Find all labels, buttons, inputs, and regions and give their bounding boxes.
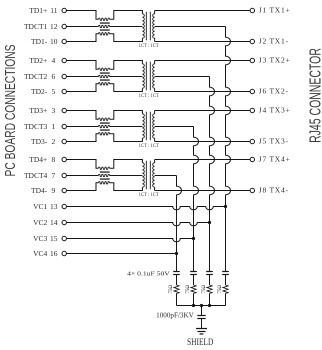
svg-text:1CT : 1CT: 1CT : 1CT <box>139 144 159 149</box>
svg-text:15: 15 <box>50 234 58 243</box>
svg-text:7: 7 <box>51 171 55 180</box>
svg-text:TD4-: TD4- <box>31 186 48 195</box>
svg-text:5: 5 <box>51 87 55 96</box>
svg-text:VC2: VC2 <box>33 218 47 227</box>
svg-text:4: 4 <box>51 56 55 65</box>
svg-text:RJ45 CONNECTOR: RJ45 CONNECTOR <box>306 48 322 143</box>
svg-text:SHIELD: SHIELD <box>187 336 213 347</box>
svg-text:1CT : 1CT: 1CT : 1CT <box>139 94 159 99</box>
svg-text:6: 6 <box>51 72 55 81</box>
svg-text:J6 TX2-: J6 TX2- <box>259 86 289 95</box>
svg-text:J7 TX4+: J7 TX4+ <box>259 154 291 163</box>
svg-text:J3 TX2+: J3 TX2+ <box>259 55 291 64</box>
svg-text:VC1: VC1 <box>33 202 47 211</box>
svg-text:VC4: VC4 <box>33 249 47 258</box>
svg-text:TD3-: TD3- <box>31 137 48 146</box>
svg-text:16: 16 <box>50 249 58 258</box>
svg-text:75Ω: 75Ω <box>168 285 174 294</box>
svg-text:1: 1 <box>51 122 55 131</box>
svg-text:11: 11 <box>50 6 57 15</box>
svg-text:TDCT2: TDCT2 <box>24 72 48 81</box>
svg-text:TD4+: TD4+ <box>29 155 47 164</box>
svg-text:J8 TX4-: J8 TX4- <box>259 185 289 194</box>
svg-text:1CT : 1CT: 1CT : 1CT <box>139 193 159 198</box>
svg-text:TDCT3: TDCT3 <box>24 122 48 131</box>
svg-text:75Ω: 75Ω <box>185 285 191 294</box>
svg-text:12: 12 <box>50 22 58 31</box>
svg-text:TD3+: TD3+ <box>29 106 47 115</box>
svg-text:9: 9 <box>51 186 55 195</box>
svg-text:PC BOARD CONNECTIONS: PC BOARD CONNECTIONS <box>1 45 18 177</box>
svg-text:8: 8 <box>51 155 55 164</box>
svg-text:TDCT1: TDCT1 <box>24 22 48 31</box>
svg-text:J5 TX3-: J5 TX3- <box>259 136 289 145</box>
svg-text:75Ω: 75Ω <box>217 285 223 294</box>
svg-text:TD1-: TD1- <box>31 37 48 46</box>
svg-text:2: 2 <box>51 137 55 146</box>
svg-text:J4 TX3+: J4 TX3+ <box>259 105 291 114</box>
svg-text:1000pF/3KV: 1000pF/3KV <box>156 312 194 319</box>
svg-text:TD1+: TD1+ <box>29 6 47 15</box>
svg-text:VC3: VC3 <box>33 234 47 243</box>
svg-text:TDCT4: TDCT4 <box>24 171 48 180</box>
svg-text:J1 TX1+: J1 TX1+ <box>259 5 291 14</box>
svg-text:TD2+: TD2+ <box>29 56 47 65</box>
svg-text:TD2-: TD2- <box>31 87 48 96</box>
svg-text:14: 14 <box>50 218 58 227</box>
svg-text:3: 3 <box>51 106 55 115</box>
svg-text:4× 0.1uF 50V: 4× 0.1uF 50V <box>127 270 170 277</box>
svg-text:75Ω: 75Ω <box>201 285 207 294</box>
svg-text:13: 13 <box>50 202 58 211</box>
svg-text:10: 10 <box>50 37 58 46</box>
svg-text:1CT : 1CT: 1CT : 1CT <box>139 44 159 49</box>
svg-text:J2 TX1-: J2 TX1- <box>259 36 289 45</box>
